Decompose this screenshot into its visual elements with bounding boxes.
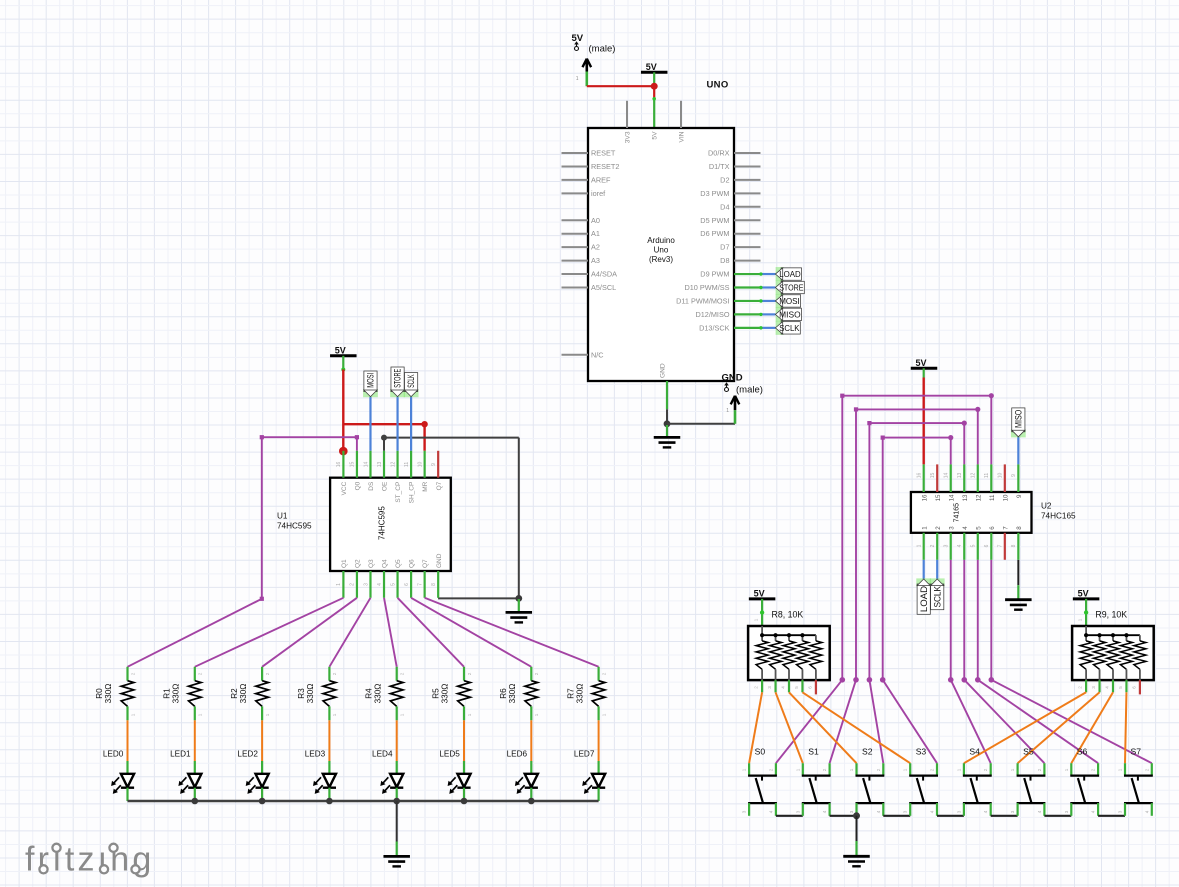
Arduino Uno (Rev3) [588,128,734,381]
svg-text:4: 4 [930,810,935,813]
svg-text:Q4: Q4 [382,559,389,568]
svg-text:R4: R4 [364,688,373,699]
svg-text:5: 5 [975,526,982,530]
junction U1 VCC (red) [339,447,348,456]
svg-text:D4: D4 [720,202,729,211]
svg-text:5V: 5V [754,588,765,598]
svg-text:4: 4 [1037,810,1042,813]
U2 top pin leg 10 [1004,464,1006,492]
svg-text:5V: 5V [1078,588,1089,598]
junction LED bus at LED5 [461,798,468,805]
resistor R4 330 ohm [364,667,404,721]
svg-text:3: 3 [944,544,950,547]
ground symbol (U1) [506,599,533,622]
wire R1 to LED1 (orange) [194,720,196,761]
wire 5V to U2 VCC (red) [923,368,925,464]
svg-text:9: 9 [1016,494,1023,498]
svg-text:6: 6 [984,544,990,547]
wire U1 Q1 to R1 (purple) [195,598,344,667]
arduino pin D10 PWM/SS [684,283,729,292]
U1 bottom pin leg 2 [356,571,358,598]
wire R4 to LED4 (orange) [396,720,398,761]
svg-text:13: 13 [962,494,969,501]
U2 bottom pin leg 8 [1017,533,1019,560]
svg-text:1: 1 [332,713,337,716]
IC U1 74HC595 [330,462,451,586]
wire R9 pin 3 to S5 (orange) [1018,692,1100,763]
svg-text:9: 9 [1011,474,1017,477]
U2 bottom pin leg 3 [950,533,952,560]
U2 bottom pin leg 2 [936,533,938,560]
wire 5V symbol to arduino 5V pin [652,72,656,128]
svg-text:RESET2: RESET2 [591,162,619,171]
svg-text:D8: D8 [720,256,729,265]
svg-text:D5 PWM: D5 PWM [700,216,729,225]
U2 bottom pin leg 5 [977,533,979,560]
svg-text:A4/SDA: A4/SDA [591,270,617,279]
svg-text:16: 16 [917,473,923,479]
svg-text:1: 1 [795,768,800,771]
wire U2 pin 4 to switch (purple) [961,560,1044,763]
svg-text:7: 7 [1002,526,1009,530]
svg-text:2: 2 [935,526,942,530]
svg-text:R0: R0 [95,688,104,699]
wire U2 pin 6 to switch (purple) [989,560,1152,763]
svg-text:6: 6 [404,583,410,586]
svg-text:2: 2 [467,672,472,675]
wire U1 Q3 to R3 (purple) [329,598,370,667]
ground symbol (LED bus) [383,856,410,866]
svg-text:D6 PWM: D6 PWM [700,229,729,238]
svg-text:STORE: STORE [393,369,403,388]
arduino pin GND [659,363,666,378]
wire R9 pin 2 to S4 (orange) [964,692,1086,763]
svg-text:2: 2 [822,768,827,771]
svg-text:330Ω: 330Ω [239,684,248,704]
switch S5 [1010,746,1045,816]
svg-text:1: 1 [601,713,606,716]
LED LED2 [237,749,268,801]
R8 pin leg 6 [807,680,816,694]
U2 bottom pin leg 7 [1004,533,1006,560]
wire R9 pin 4 to S6 (orange) [1071,692,1113,763]
svg-text:Uno: Uno [654,245,669,254]
svg-text:S2: S2 [862,746,873,756]
net label MOSI (above U1) [363,371,378,397]
arduino pin D5 PWM [700,216,760,225]
wire switch bus S2-S3 [883,815,910,817]
svg-text:U1: U1 [277,512,288,521]
R8 pin leg 3 [767,680,776,692]
junction LED bus at LED6 [528,798,535,805]
svg-text:1: 1 [754,618,759,621]
svg-text:5V: 5V [915,358,926,368]
power symbol 5V (R8) [749,588,776,599]
U1 bottom pin leg 5 [396,571,398,598]
net label SCLK [775,321,800,335]
svg-text:A0: A0 [591,216,600,225]
wire net MISO to U2 pin 9 (blue) [1017,437,1019,465]
arduino pin D13/SCK [699,323,730,332]
wire U2 pin 11 loop to switch (purple) [776,393,994,763]
svg-text:330Ω: 330Ω [575,684,584,704]
svg-text:LED5: LED5 [439,749,460,758]
svg-text:1: 1 [198,713,203,716]
svg-text:3: 3 [742,810,747,813]
wire D10 to net label (green/blue) [734,286,775,289]
switch S4 [956,746,991,816]
wire R7 to LED7 (orange) [598,720,600,761]
svg-text:S3: S3 [916,746,927,756]
svg-text:2: 2 [754,686,759,689]
arduino pin AREF [562,175,612,184]
R8 pin leg 2 [754,680,763,692]
svg-text:S1: S1 [808,746,819,756]
svg-text:GND: GND [659,363,666,378]
svg-text:LED7: LED7 [574,749,595,758]
svg-text:12: 12 [971,473,977,479]
svg-text:A2: A2 [591,243,600,252]
svg-text:14: 14 [948,494,955,501]
arduino pin D3 PWM [700,189,760,198]
svg-text:Q7: Q7 [422,559,429,568]
resistor network R8, 10K [748,626,830,680]
svg-text:R3: R3 [297,688,306,699]
net label STORE (above U1) [390,367,405,397]
R9 pin leg 5 [1118,680,1127,692]
svg-text:Arduino: Arduino [647,236,675,245]
U2 bottom pin leg 4 [963,533,965,560]
U1 bottom pin leg 6 [410,571,412,598]
svg-text:2: 2 [601,672,606,675]
svg-text:STORE: STORE [779,284,804,293]
LED LED0 [103,749,134,801]
arduino pin A1 [562,229,600,238]
svg-text:2: 2 [1037,768,1042,771]
IC U2 74HC165 [911,473,1032,548]
wire R8 pin 2 to S0 (orange) [749,692,762,763]
wire D13 to net label (green/blue) [734,326,775,329]
U1 top pin leg 15 [356,451,358,478]
svg-text:4: 4 [781,686,786,689]
svg-text:3: 3 [1091,686,1096,689]
svg-text:VCC: VCC [341,481,348,495]
svg-text:SCLK: SCLK [779,324,800,333]
arduino pin A4/SDA [562,270,618,279]
LED LED6 [507,749,538,801]
svg-text:15: 15 [350,462,356,468]
svg-text:11: 11 [404,462,410,467]
wire U1 Q6 to R6 (purple) [411,598,531,667]
wire U1 Q0 to LED fan (purple, left run) [128,435,360,667]
arduino pin D11 PWM/MOSI [676,296,729,305]
svg-text:1: 1 [1064,768,1069,771]
resistor R6 330 ohm [499,667,539,721]
svg-text:Q2: Q2 [355,559,362,568]
svg-text:5V: 5V [335,345,346,355]
svg-text:RESET: RESET [591,149,616,158]
svg-text:330Ω: 330Ω [441,684,450,704]
svg-text:2: 2 [198,672,203,675]
svg-text:DS: DS [368,481,375,491]
svg-text:10: 10 [417,462,423,468]
junction LED bus at LED3 [326,798,333,805]
svg-text:4: 4 [1091,810,1096,813]
arduino pin ioref [562,189,607,198]
svg-text:3: 3 [1010,810,1015,813]
switch S3 [903,746,938,816]
net label MISO [775,307,801,321]
label U2 74HC165 [1041,502,1076,521]
svg-text:D2: D2 [720,175,729,184]
svg-text:9: 9 [431,463,437,466]
svg-text:A3: A3 [591,256,600,265]
arduino pin D8 [720,256,760,265]
svg-text:MOSI: MOSI [779,297,800,306]
wire D12 to net label (green/blue) [734,313,775,316]
svg-text:D12/MISO: D12/MISO [695,310,729,319]
wire R8 pin 4 to S2 (orange) [789,692,857,763]
svg-text:12: 12 [390,462,396,468]
svg-text:D3 PWM: D3 PWM [700,189,729,198]
svg-text:74HC595: 74HC595 [378,506,387,540]
U1 top pin leg 14 [369,451,371,478]
R9 pin leg 3 [1091,680,1100,692]
U2 top pin leg 12 [977,464,979,492]
arduino pin D2 [720,175,760,184]
arduino pin D7 [720,243,760,252]
svg-text:1: 1 [956,768,961,771]
wire LED cathode bus (dark gray) [128,800,599,802]
wire R2 to LED2 (orange) [261,720,263,761]
R9 pin leg 2 [1078,680,1087,692]
svg-text:2: 2 [1144,768,1149,771]
U2 top pin leg 14 [950,464,952,492]
switch S1 [795,746,830,816]
svg-text:LED0: LED0 [103,749,124,758]
svg-text:D11 PWM/MOSI: D11 PWM/MOSI [676,296,729,305]
wire R0 to LED0 (orange) [127,720,129,761]
svg-text:4: 4 [822,810,827,813]
net label STORE [775,281,804,295]
wire 5V to R9 [1078,599,1089,626]
svg-text:10: 10 [998,473,1004,479]
svg-text:GND: GND [436,553,443,568]
svg-text:1: 1 [917,544,923,547]
wire net SCLK to U2 pin 2 (blue) [936,560,938,579]
arduino pin RESET [562,149,616,158]
wire arduino GND down (green) [666,381,668,424]
wire switch bus S3-S4 [937,815,964,817]
svg-text:LED1: LED1 [170,749,191,758]
resistor R2 330 ohm [230,667,270,721]
svg-text:Q5: Q5 [395,559,402,568]
svg-text:15: 15 [930,473,936,479]
R8 pin leg 5 [794,680,803,692]
svg-text:4: 4 [983,810,988,813]
svg-text:6: 6 [1131,686,1136,689]
svg-text:S5: S5 [1023,746,1034,756]
U1 top pin leg 12 [396,451,398,478]
arduino pin RESET2 [562,162,620,171]
svg-text:7: 7 [417,583,423,586]
resistor R7 330 ohm [566,667,606,721]
ground symbol (arduino GND) [654,425,681,447]
svg-text:1: 1 [903,768,908,771]
svg-text:(Rev3): (Rev3) [649,255,673,264]
svg-text:D9 PWM: D9 PWM [700,270,729,279]
svg-text:R1: R1 [163,688,172,699]
svg-text:3: 3 [956,810,961,813]
svg-text:15: 15 [935,494,942,501]
svg-text:1: 1 [726,408,729,414]
svg-text:13: 13 [957,473,963,479]
junction switch bus gnd [853,812,860,819]
label R8, 10K [772,610,804,620]
ground symbol (switch bus) [843,856,870,866]
label R9, 10K [1095,610,1127,620]
wire 5V to R8 [754,599,765,626]
resistor R0 330 ohm [95,667,135,721]
svg-text:1: 1 [1010,768,1015,771]
wire switch bus S6-S7 [1098,815,1125,817]
svg-text:5V: 5V [646,62,657,72]
svg-text:11: 11 [984,473,990,478]
resistor R3 330 ohm [297,667,337,721]
wire U1 Q5 to R5 (purple) [398,598,464,667]
svg-text:4: 4 [876,810,881,813]
svg-text:1: 1 [742,768,747,771]
resistor network R9, 10K [1072,626,1154,680]
power symbol 5V (R9) [1073,588,1100,599]
arduino pin D1/TX [709,162,761,171]
svg-text:D10 PWM/SS: D10 PWM/SS [684,283,729,292]
svg-text:LED6: LED6 [507,749,528,758]
svg-text:S6: S6 [1077,746,1088,756]
svg-text:12: 12 [975,494,982,501]
junction LED bus at LED4 [393,798,400,805]
U2 bottom pin leg 6 [990,533,992,560]
svg-text:VIN: VIN [678,131,685,142]
svg-text:8: 8 [1011,544,1017,547]
net label LOAD [775,267,801,281]
svg-text:330Ω: 330Ω [306,684,315,704]
svg-text:1: 1 [130,713,135,716]
svg-text:2: 2 [876,768,881,771]
R8 pin leg 4 [781,680,790,692]
net label SCLK (below U2) [930,578,945,609]
svg-text:5V: 5V [651,131,658,140]
svg-text:16: 16 [336,462,342,468]
svg-text:(male): (male) [736,385,763,396]
wire net SCLK to U1 (blue) [410,397,412,451]
fritzing logo [25,841,155,879]
wire net STORE to U1 (blue) [396,397,398,451]
svg-text:MR: MR [422,481,429,491]
wire R9 pin 5 to S7 (orange) [1125,692,1126,763]
5V male pin header J1 [572,33,616,86]
svg-text:Q7: Q7 [436,481,443,490]
wire 5V male to 5V net (red) [587,85,654,87]
U1 top pin leg 9 [437,451,439,478]
U1 top pin leg 10 [424,451,426,478]
power symbol 5V (arduino) [641,62,668,73]
svg-text:R9, 10K: R9, 10K [1095,610,1127,620]
GND male pin header J2 [722,373,763,424]
svg-text:6: 6 [807,686,812,689]
svg-text:2: 2 [265,672,270,675]
wire switch bus S0-S1 [776,815,803,817]
svg-text:5: 5 [794,686,799,689]
U1 bottom pin leg 8 [437,571,439,598]
svg-text:4: 4 [768,810,773,813]
svg-text:LED3: LED3 [305,749,326,758]
arduino pin D6 PWM [700,229,760,238]
label U1 74HC595 [277,512,312,531]
wire switch bus S4-S5 [991,815,1018,817]
svg-text:3: 3 [948,526,955,530]
LED LED3 [305,749,336,801]
U2 top pin leg 13 [963,464,965,492]
U1 bottom pin leg 4 [383,571,385,598]
U2 top pin leg 9 [1017,464,1019,492]
svg-text:LOAD: LOAD [779,270,801,279]
svg-text:A1: A1 [591,229,600,238]
svg-text:AREF: AREF [591,175,611,184]
svg-text:5V: 5V [572,33,584,44]
LED LED7 [574,749,605,801]
svg-text:14: 14 [363,462,369,468]
svg-text:330Ω: 330Ω [172,684,181,704]
svg-text:D0/RX: D0/RX [708,149,730,158]
svg-text:5: 5 [971,544,977,547]
svg-text:1: 1 [921,526,928,530]
svg-text:ST_CP: ST_CP [395,482,402,503]
svg-text:11: 11 [989,494,996,501]
net label LOAD (below U2) [916,578,931,614]
svg-text:1: 1 [534,713,539,716]
svg-text:5: 5 [390,583,396,586]
svg-text:2: 2 [930,544,936,547]
U1 top pin leg 13 [383,451,385,478]
wire net MOSI to U1 (blue) [369,397,371,451]
svg-text:7: 7 [998,544,1004,547]
wire U2 pin 3 to switch (purple) [948,560,991,763]
U2 bottom pin leg 1 [923,533,925,560]
arduino pin A2 [562,243,600,252]
wire R6 to LED6 (orange) [530,720,532,761]
svg-text:4: 4 [962,526,969,530]
svg-text:D7: D7 [720,243,729,252]
LED LED5 [439,749,470,801]
svg-text:1: 1 [400,713,405,716]
wire U1 Q4 to R4 (purple) [384,598,397,667]
label UNO [707,79,729,90]
svg-text:2: 2 [983,768,988,771]
svg-text:Q0: Q0 [355,481,362,490]
wire U1 Q7 to R7 (purple) [425,598,599,667]
svg-text:4: 4 [1144,810,1149,813]
wire net LOAD to U2 pin 1 (blue) [923,560,925,579]
svg-text:2: 2 [930,768,935,771]
svg-text:Q1: Q1 [341,559,348,568]
svg-text:330Ω: 330Ω [373,684,382,704]
wire switch bus S5-S6 [1044,815,1071,817]
svg-text:3: 3 [363,583,369,586]
svg-text:GND: GND [722,373,743,384]
arduino pin A3 [562,256,600,265]
arduino pin D4 [720,202,760,211]
